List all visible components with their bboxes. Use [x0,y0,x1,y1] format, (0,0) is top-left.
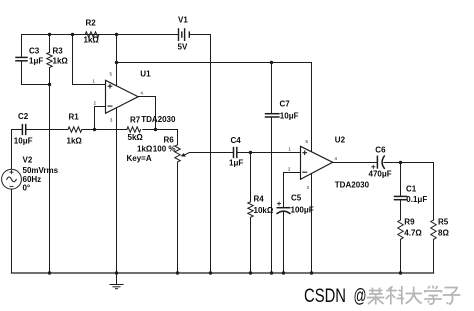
junction ground rail / U1 supply / ground symbol [115,271,118,274]
ground [116,273,118,284]
svg-text:TDA2030: TDA2030 [141,115,176,124]
junction ground rail / C5 [282,271,285,274]
svg-text:100 %: 100 % [153,145,176,154]
svg-text:C3: C3 [29,47,40,56]
svg-text:R2: R2 [86,19,97,28]
svg-text:R1: R1 [69,112,80,121]
svg-text:5kΩ: 5kΩ [128,133,144,142]
capacitor C1 [400,163,402,197]
wire C4 to U2 noninverting input [237,152,301,154]
polarity plus C6 [371,165,375,169]
junction top rail / R3 [48,33,51,36]
svg-text:4.7Ω: 4.7Ω [404,229,422,238]
wire input node to V2 [11,130,13,170]
watermark chinese glyphs [367,286,461,305]
resistor R7 [95,129,127,131]
svg-text:1kΩ: 1kΩ [53,57,69,66]
op-amp U1 [106,80,139,113]
capacitor C5 [277,208,290,214]
wire C3-R3 bottom [22,84,50,86]
capacitor C3 [21,35,23,57]
junction ground rail / R6 [176,271,179,274]
wire U1 output to feedback node [138,97,155,130]
junction U2 output / C6 / R9 node [399,161,402,164]
svg-text:R9: R9 [404,218,415,227]
wire U2 output [333,162,377,164]
source V2 [2,169,22,189]
svg-text:Key=A: Key=A [127,154,152,163]
svg-text:0.1μF: 0.1μF [406,195,427,204]
svg-text:R3: R3 [53,47,64,56]
svg-text:R5: R5 [438,218,449,227]
watermark CSDN [304,286,367,307]
resistor R5 [433,163,435,221]
glyph mou [367,288,385,305]
svg-text:0°: 0° [23,183,31,192]
wire U1 noninverting branch from top rail [73,35,106,85]
wire top rail left [22,34,179,36]
wire VCC rail [117,62,312,64]
wire R6 wiper to C4 [185,153,233,155]
svg-text:1kΩ: 1kΩ [137,145,153,154]
resistor R2 [85,32,99,37]
svg-text:8Ω: 8Ω [438,229,449,238]
svg-text:10μF: 10μF [280,112,299,121]
junction ground rail / U2 supply [310,271,313,274]
wire U2 power vertical [311,63,313,274]
junction ground rail / R4 [249,271,252,274]
capacitor C2 [22,125,25,135]
wire U2 inverting input to C5 [284,173,301,208]
junction top rail / U1 noninverting branch [71,33,74,36]
svg-text:CSDN: CSDN [304,286,346,307]
wire V2 to ground rail [11,189,13,273]
svg-text:100μF: 100μF [291,206,314,215]
svg-text:C7: C7 [280,100,291,109]
svg-text:R4: R4 [254,194,265,203]
resistor R1 [68,127,82,132]
capacitor C6 [377,156,384,168]
junction C4 / R4 node [249,151,252,154]
junction top rail / U1 supply branch [115,33,118,36]
capacitor C4 [234,148,237,158]
svg-text:1kΩ: 1kΩ [67,136,83,145]
capacitor C7 [271,63,273,114]
junction ground rail / V1 return [209,271,212,274]
svg-text:1kΩ: 1kΩ [84,36,100,45]
battery V1 [179,29,190,40]
junction VCC wire / C7 [270,61,273,64]
svg-text:TDA2030: TDA2030 [335,180,370,189]
svg-text:U2: U2 [335,136,346,145]
svg-text:1μF: 1μF [29,57,43,66]
glyph xue [424,286,442,305]
svg-text:C5: C5 [291,194,302,203]
svg-text:C4: C4 [231,136,242,145]
svg-text:C2: C2 [18,112,29,121]
svg-text:10μF: 10μF [14,137,33,146]
svg-text:R7: R7 [130,116,141,125]
junction ground rail / R3 [48,271,51,274]
svg-text:R6: R6 [164,136,175,145]
svg-text:50mVrms: 50mVrms [23,166,59,175]
svg-text:V2: V2 [23,156,33,165]
junction ground rail / R9 [399,271,402,274]
junction R1 / R7 / U1 inverting node [93,128,96,131]
wire top rail right of V1 down to ground rail [190,35,211,274]
wire U1 power vertical top-rail to ground-rail [116,35,118,274]
svg-text:C6: C6 [375,145,386,154]
R6 wiper arrow [181,153,186,157]
wire R1 to node [82,129,95,131]
svg-text:5V: 5V [178,43,188,52]
glyph da [406,287,423,304]
svg-text:C1: C1 [406,185,417,194]
resistor R9 [398,220,403,239]
wire input line C2-R1 [12,129,23,131]
junction VCC wire / U1 supply [115,61,118,64]
svg-text:V1: V1 [178,16,188,25]
svg-text:10kΩ: 10kΩ [254,206,274,215]
potentiometer R6 [177,130,179,145]
op-amp U2 [301,146,333,179]
svg-text:U1: U1 [140,70,151,79]
svg-text:1μF: 1μF [229,158,243,167]
polarity plus C5 [277,202,281,206]
wire U1 inverting input [95,107,106,130]
resistor R3 [49,35,51,53]
glyph zi [443,288,461,305]
junction ground rail / C7 [270,271,273,274]
junction U1 output / R7 node [154,128,157,131]
svg-text:@: @ [354,286,367,307]
svg-text:470μF: 470μF [369,169,392,178]
glyph ke [386,286,404,305]
wire ground rail [12,272,434,274]
resistor R4 [250,153,252,202]
junction C3/R3 bottom node [48,83,51,86]
